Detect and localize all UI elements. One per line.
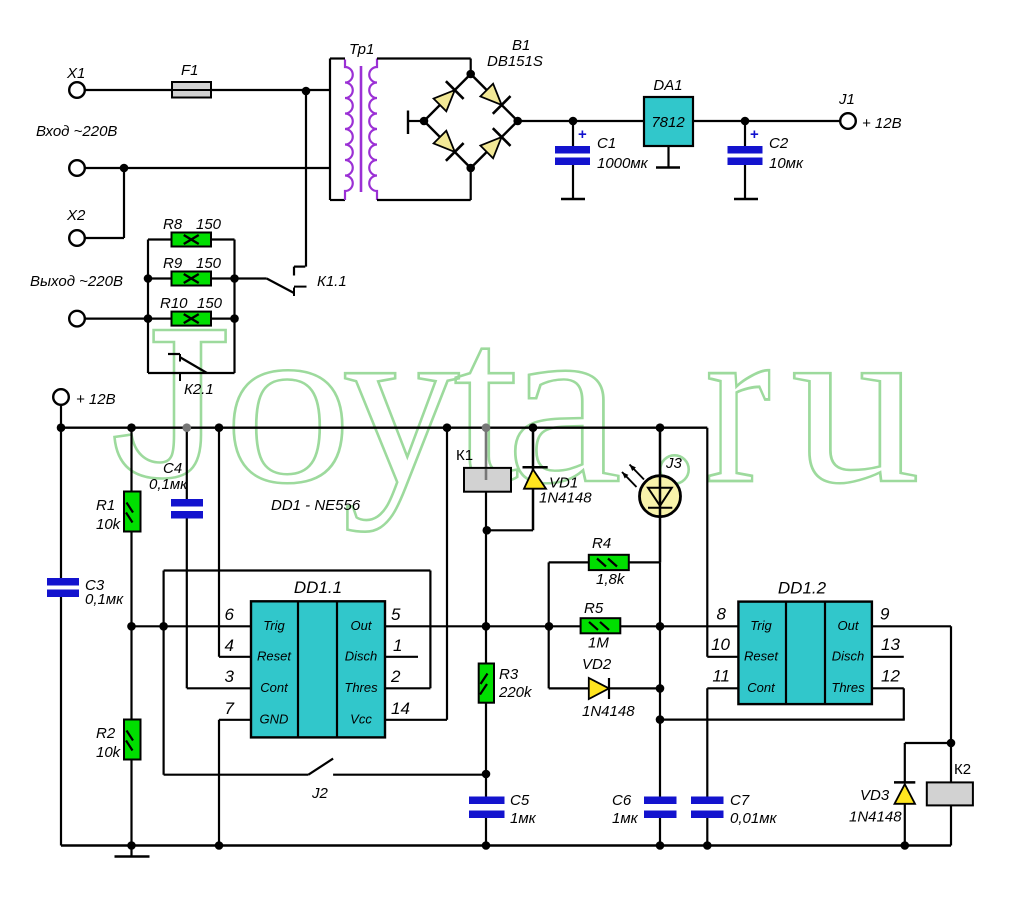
svg-text:DD1.1: DD1.1: [294, 578, 342, 597]
svg-text:X2: X2: [66, 207, 86, 224]
svg-text:В1: В1: [512, 37, 530, 54]
svg-text:1мк: 1мк: [510, 810, 537, 827]
svg-text:0,1мк: 0,1мк: [85, 591, 124, 608]
svg-text:Cont: Cont: [260, 680, 289, 695]
svg-text:3: 3: [225, 667, 235, 686]
svg-text:0,01мк: 0,01мк: [730, 810, 777, 827]
svg-text:12: 12: [881, 666, 900, 685]
svg-text:Reset: Reset: [744, 648, 779, 663]
svg-text:r: r: [705, 272, 771, 532]
svg-text:2: 2: [390, 667, 401, 686]
svg-text:R3: R3: [499, 666, 519, 683]
svg-text:Trig: Trig: [263, 618, 285, 633]
svg-text:10k: 10k: [96, 516, 122, 533]
svg-text:C1: C1: [597, 135, 616, 152]
svg-text:J3: J3: [665, 455, 683, 472]
svg-text:Out: Out: [351, 618, 373, 633]
svg-text:F1: F1: [181, 62, 199, 79]
svg-text:J2: J2: [311, 785, 329, 802]
svg-text:X1: X1: [66, 65, 85, 82]
svg-text:+: +: [578, 126, 587, 143]
svg-text:10мк: 10мк: [769, 155, 804, 172]
svg-text:10k: 10k: [96, 744, 122, 761]
svg-text:R5: R5: [584, 600, 604, 617]
svg-text:6: 6: [225, 605, 235, 624]
svg-text:220k: 220k: [498, 684, 533, 701]
svg-text:VD2: VD2: [582, 656, 612, 673]
svg-text:C5: C5: [510, 792, 530, 809]
svg-text:10: 10: [711, 635, 730, 654]
svg-text:C7: C7: [730, 792, 750, 809]
svg-text:u: u: [791, 273, 920, 533]
svg-text:J1: J1: [838, 91, 855, 108]
svg-text:1: 1: [393, 636, 402, 655]
svg-text:1M: 1M: [588, 635, 609, 652]
svg-text:Thres: Thres: [344, 680, 378, 695]
svg-text:+: +: [750, 126, 759, 143]
svg-text:7: 7: [225, 699, 235, 718]
svg-text:Disch: Disch: [345, 648, 378, 663]
svg-text:1000мк: 1000мк: [597, 155, 649, 172]
svg-text:Thres: Thres: [831, 680, 865, 695]
svg-text:R2: R2: [96, 725, 116, 742]
svg-text:11: 11: [712, 666, 730, 685]
svg-text:Выход ~220В: Выход ~220В: [30, 273, 123, 290]
svg-text:К1: К1: [456, 447, 473, 464]
svg-text:К2: К2: [954, 761, 971, 778]
svg-text:4: 4: [225, 636, 234, 655]
svg-text:Reset: Reset: [257, 648, 292, 663]
svg-text:8: 8: [717, 604, 727, 623]
svg-text:13: 13: [881, 635, 900, 654]
svg-text:C2: C2: [769, 135, 789, 152]
svg-text:R8: R8: [163, 216, 183, 233]
svg-text:150: 150: [196, 255, 222, 272]
svg-text:0,1мк: 0,1мк: [149, 476, 188, 493]
svg-text:R1: R1: [96, 497, 115, 514]
svg-text:1мк: 1мк: [612, 810, 639, 827]
svg-text:9: 9: [880, 604, 890, 623]
svg-text:+ 12В: + 12В: [862, 115, 902, 132]
svg-text:Вход ~220В: Вход ~220В: [36, 123, 117, 140]
svg-text:1N4148: 1N4148: [582, 703, 635, 720]
svg-text:DA1: DA1: [653, 77, 682, 94]
svg-text:К2.1: К2.1: [184, 381, 214, 398]
svg-text:1N4148: 1N4148: [539, 490, 592, 507]
svg-text:DB151S: DB151S: [487, 53, 543, 70]
svg-text:+ 12В: + 12В: [76, 391, 116, 408]
svg-text:C6: C6: [612, 792, 632, 809]
svg-text:5: 5: [391, 605, 401, 624]
svg-text:Trig: Trig: [750, 618, 772, 633]
svg-text:o: o: [224, 273, 352, 533]
svg-text:GND: GND: [260, 711, 289, 726]
svg-text:R10: R10: [160, 295, 188, 312]
svg-text:7812: 7812: [651, 114, 685, 131]
svg-text:DD1 - NE556: DD1 - NE556: [271, 497, 361, 514]
svg-text:Cont: Cont: [747, 680, 776, 695]
svg-text:DD1.2: DD1.2: [778, 579, 827, 598]
svg-text:150: 150: [196, 216, 222, 233]
svg-text:Vcc: Vcc: [350, 711, 372, 726]
svg-text:VD3: VD3: [860, 787, 890, 804]
svg-text:Out: Out: [838, 618, 860, 633]
svg-text:R4: R4: [592, 535, 611, 552]
svg-text:y: y: [342, 272, 460, 532]
svg-text:R9: R9: [163, 255, 183, 272]
svg-text:14: 14: [391, 699, 410, 718]
svg-text:1N4148: 1N4148: [849, 809, 902, 826]
svg-text:К1.1: К1.1: [317, 273, 347, 290]
svg-text:150: 150: [197, 295, 223, 312]
svg-text:1,8k: 1,8k: [596, 571, 626, 588]
svg-text:Тр1: Тр1: [349, 41, 374, 58]
svg-text:Disch: Disch: [832, 648, 865, 663]
svg-text:C4: C4: [163, 460, 182, 477]
